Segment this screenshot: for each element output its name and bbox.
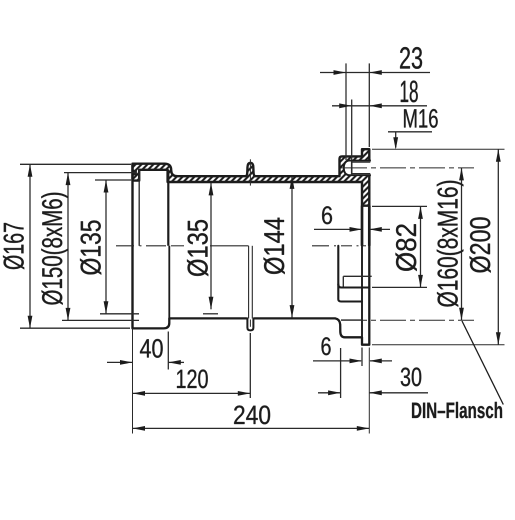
M16 hole centreline (bottom) — [341, 319, 474, 321]
dim 120 ext line — [249, 333, 251, 398]
dim Ø82 line — [420, 206, 422, 287]
dim 23 extension line a — [345, 63, 347, 160]
flange bore lower edge — [338, 246, 362, 302]
dim 23 line — [320, 72, 430, 74]
dim 18 label — [401, 81, 418, 103]
dim 23 label — [400, 47, 422, 69]
dim 23 extension line b — [368, 63, 370, 147]
dim 6 bottom label — [322, 337, 331, 355]
dim Ø150 line — [67, 173, 69, 321]
dim Ø167 line — [29, 164, 31, 328]
bottom outer contour — [133, 206, 370, 345]
right ext line (240/30/6) — [368, 348, 370, 434]
dim Ø135 mid stub — [203, 313, 218, 315]
dim Ø200 label — [470, 217, 491, 272]
DIN-Flansch label — [412, 402, 502, 418]
tube silhouette behind hub — [341, 319, 362, 321]
dim Ø160 line — [461, 168, 463, 320]
M16 thread minor lines — [352, 161, 371, 163]
dim Ø135 left label — [80, 220, 101, 274]
left end face line — [131, 164, 133, 329]
dim 18 arrows — [339, 103, 352, 108]
dim 23 arrows — [334, 70, 347, 75]
dim 40 arrows — [120, 360, 133, 365]
dim Ø135 mid arrows — [209, 183, 214, 196]
M16 tapped hole slot (white cut) — [344, 161, 371, 176]
dim 6 bottom arrows — [350, 359, 363, 364]
dim Ø135 mid label — [187, 220, 208, 276]
dim 240 arrows — [133, 426, 146, 431]
dim Ø160(8xM16) label — [437, 181, 464, 307]
face lip edge line — [138, 170, 140, 246]
dim 240 line — [133, 427, 370, 429]
dim Ø167 label — [3, 223, 24, 269]
dim Ø200 extension lines — [372, 148, 505, 150]
dim Ø200 arrows — [496, 149, 501, 162]
dim 120 arrows — [133, 391, 146, 396]
dim 30 ext line — [340, 348, 342, 398]
disc bore-edge thick segs — [361, 206, 364, 246]
bore step edge (top half) — [167, 170, 169, 246]
dim 120 line — [133, 392, 251, 394]
dim Ø135 left extension lines — [95, 179, 131, 181]
label M16 — [404, 109, 438, 128]
disc left face (lower part) — [361, 206, 363, 338]
dim Ø167 extension lines — [20, 163, 131, 165]
DIN-Flansch leader — [462, 321, 503, 405]
dim 30 arrows — [328, 390, 341, 395]
bottom ridge tick lines — [248, 246, 250, 319]
dim Ø82 arrows — [418, 206, 423, 219]
dim 6 bottom ext line — [361, 348, 363, 367]
M16 hole centreline (top) — [341, 167, 474, 169]
dim 30 line — [318, 392, 341, 394]
M6 tapped hole (left face) — [132, 170, 137, 176]
dim 6 upper arrows — [350, 227, 363, 232]
bottom ridge notch — [247, 318, 253, 330]
dim 18 line — [332, 105, 427, 107]
dim Ø167 arrows — [28, 164, 33, 177]
dim Ø135 left arrows — [104, 180, 109, 193]
flange body section (hatched, upper half) — [133, 149, 370, 206]
dim 30 label — [401, 368, 421, 387]
dim Ø82 label — [396, 224, 417, 271]
dim 40 label — [140, 339, 163, 358]
dim Ø160 arrows — [459, 168, 464, 181]
dim Ø135 left line — [105, 180, 107, 314]
flange counterbore step — [343, 275, 371, 277]
dim 240 label — [234, 406, 270, 425]
left ext line (40/120/240) — [132, 328, 134, 433]
dim 6 upper label — [322, 206, 332, 224]
dim 6 bottom line — [313, 360, 361, 362]
dim Ø144 line — [291, 176, 293, 317]
bottom step silhouette — [168, 246, 170, 319]
dim Ø144 label — [264, 218, 285, 274]
dim 40 ext line right — [167, 332, 169, 370]
dim Ø150 arrows — [66, 173, 71, 186]
dim 40 line — [107, 361, 133, 363]
dim Ø150(8xM6) label — [41, 193, 68, 305]
ridge centre tick — [249, 159, 251, 185]
dim Ø82 extension lines — [372, 205, 427, 207]
label M16 leader — [388, 131, 432, 133]
dim Ø150 extension lines — [64, 172, 136, 174]
dim Ø200 line — [497, 149, 499, 345]
dim 120 label — [177, 370, 208, 389]
dim Ø135 mid line — [210, 183, 212, 309]
dim 6 upper line — [314, 228, 361, 230]
main centreline — [116, 245, 134, 247]
dim 18 extension line — [351, 100, 353, 161]
dim Ø144 arrows — [290, 176, 295, 189]
